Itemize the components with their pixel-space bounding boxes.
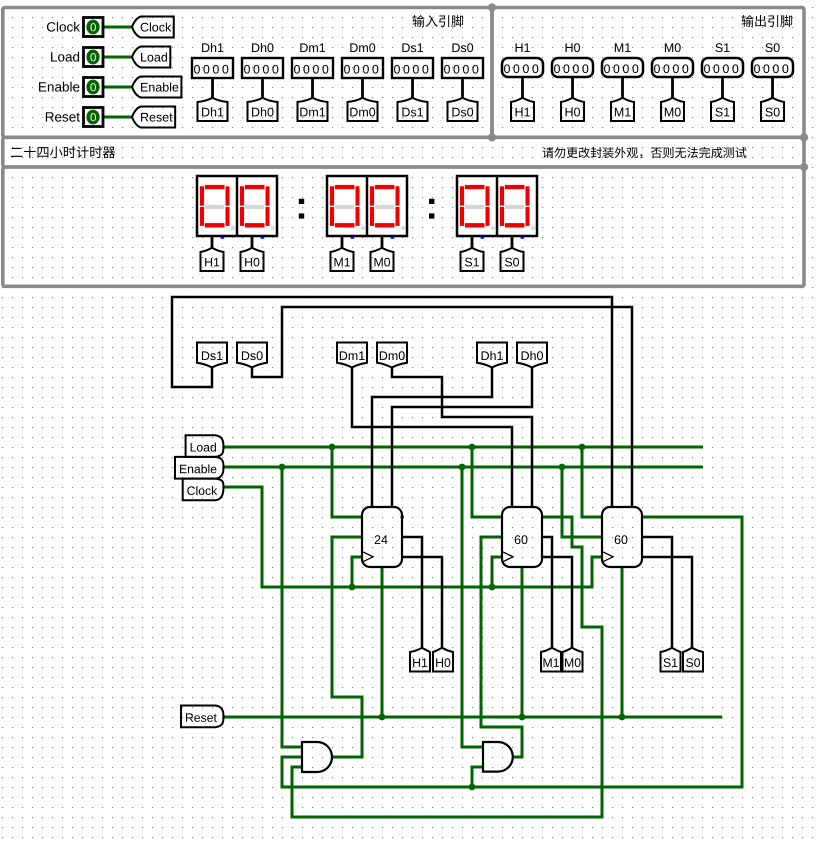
column label S0 [765, 43, 779, 52]
bus Dh0 to counter24 [392, 368, 532, 507]
tunnel M1 (north) [611, 98, 634, 121]
wire digit4 to tunnel [471, 237, 474, 248]
wire H1 pin to tunnel [521, 77, 524, 98]
tunnel Enable (west) [132, 77, 181, 98]
wire digit3 to tunnel [381, 237, 384, 248]
label Reset [46, 112, 80, 121]
tunnel Clock (east) [183, 479, 224, 501]
tunnel H1 (north) [511, 98, 534, 121]
column label M0 [665, 43, 681, 52]
tunnel S0 (circuit, north) [683, 648, 703, 672]
wire Load to counter60m Ld [472, 447, 502, 517]
wire Enable to AND1 input A [282, 467, 302, 747]
wire digit0 to tunnel [211, 237, 214, 248]
7-segment display digit 4 [465, 185, 485, 189]
tunnel Enable (east) [175, 457, 224, 479]
bus Dh1 to counter24 [372, 368, 492, 507]
tunnel Dh1 (south) [477, 343, 507, 368]
output panel border [492, 8, 804, 138]
tunnel H1 (circuit, north) [410, 648, 430, 672]
tunnel S1 (north) [711, 98, 734, 121]
7-segment display pair 0 background [197, 176, 277, 236]
tunnel Dh0 (north) [248, 98, 278, 121]
bus Dm0 to counter60m [392, 368, 532, 507]
wire Reset pin to tunnel [104, 116, 133, 119]
wire counter60s clear to Reset [621, 567, 624, 717]
tunnel S1 (display, north) [461, 248, 484, 271]
wire S1 pin to tunnel [721, 77, 724, 98]
column label H1 [516, 43, 530, 52]
column label M1 [615, 43, 631, 52]
tunnel Dm1 (north) [298, 98, 328, 121]
output pin H1 (4-bit) [502, 58, 543, 77]
tunnel Ds0 (north) [448, 98, 478, 121]
warning text [543, 147, 747, 159]
input pin Ds0 (4-bit) [442, 58, 483, 78]
tunnel M0 (circuit, north) [563, 648, 583, 672]
junction Load/24 [329, 444, 336, 451]
bus Ds0 to counter60s [252, 307, 632, 507]
junction Enable/AND2 [459, 464, 466, 471]
tunnel Reset (west) [132, 107, 175, 128]
wire Clock pin to tunnel [104, 26, 133, 29]
column label Dh1 [202, 43, 223, 52]
tunnel H1 (display, north) [201, 248, 224, 271]
colon 2 [429, 199, 434, 204]
tunnel Load (east) [186, 435, 224, 457]
column label Dm1 [300, 43, 325, 52]
wire Clock to counter60m clk [492, 557, 502, 587]
counter U2 counter-60 (minutes) [502, 507, 542, 567]
7-segment display pair 1 background [327, 176, 407, 236]
AND gate G1 (enables hours counter) [302, 742, 332, 772]
7-segment display digit 2 [335, 185, 355, 189]
bus Ds1 to counter60s [172, 297, 612, 507]
wire Enable to counter60s En [562, 467, 602, 537]
input pin Dh0 (4-bit) [242, 58, 283, 78]
bus counter60m Q0 to M0 [542, 557, 572, 648]
wire Reset distribution line [224, 716, 722, 719]
counter U1 counter-24 (hours) [362, 507, 402, 567]
wire Dh1 pin to tunnel [211, 78, 214, 98]
junction Load/60s [579, 444, 586, 451]
tunnel Dm0 (south) [377, 343, 407, 368]
tunnel M1 (display, north) [331, 248, 354, 271]
tunnel Reset (east) [181, 706, 224, 728]
input panel border [3, 8, 492, 138]
colon 1 [299, 199, 304, 204]
wire Clock to counter24 clk [352, 557, 362, 587]
label Clock [47, 22, 80, 32]
wire Enable to AND2 input A [462, 467, 483, 747]
tunnel H0 (circuit, north) [433, 648, 453, 672]
7-segment display digit 5 [505, 185, 525, 189]
tunnel H0 (north) [561, 98, 584, 121]
input pin Dh1 (4-bit) [192, 58, 233, 78]
output pin S0 (4-bit) [752, 58, 793, 77]
input pin Dm1 (4-bit) [292, 58, 333, 78]
wire counter60s carry branch to AND2 input C [472, 767, 483, 787]
tunnel S0 (north) [761, 98, 784, 121]
display panel border [3, 167, 804, 286]
wire H0 pin to tunnel [571, 77, 574, 98]
junction Load/60m [469, 444, 476, 451]
header 输出引脚 [742, 15, 793, 27]
tunnel S1 (circuit, north) [661, 648, 681, 672]
label Load [51, 52, 79, 62]
junction Enable/60s [559, 464, 566, 471]
wire Load to counter60s Ld [582, 447, 602, 517]
wire digit1 to tunnel [251, 237, 254, 248]
wire counter60s carry to AND1 input B [282, 517, 742, 787]
tunnel Ds1 (north) [398, 98, 428, 121]
junction Reset/60m [519, 714, 526, 721]
input pin Clock [84, 18, 104, 37]
bus counter60s Q0 to S0 [642, 557, 692, 648]
tunnel Load (west) [132, 47, 170, 68]
input pin Enable [84, 78, 104, 97]
wire Dh0 pin to tunnel [261, 78, 264, 98]
wire Load pin to tunnel [104, 56, 133, 59]
bus counter60m Q1 to M1 [542, 537, 552, 648]
bus Dm1 to counter60m [352, 368, 512, 507]
wire digit2 to tunnel [341, 237, 344, 248]
wire Clock distribution line [224, 487, 602, 587]
wire counter60m carry to AND1 input C [292, 517, 602, 817]
label Enable [39, 82, 79, 92]
column label H0 [566, 43, 580, 52]
tunnel Ds1 (south) [197, 343, 227, 368]
tunnel Dm0 (north) [348, 98, 378, 121]
wire Load distribution line [224, 446, 703, 449]
7-segment display digit 1 [245, 185, 265, 189]
bus counter24 Q0 to H0 [402, 557, 442, 648]
tunnel Dh1 (north) [198, 98, 228, 121]
wire counter24 clear to Reset [381, 567, 384, 717]
counter24 carry stub [401, 516, 405, 519]
input pin Reset [84, 108, 104, 127]
junction Clock/60m [489, 584, 496, 591]
column label Ds1 [402, 43, 423, 52]
tunnel M0 (display, north) [371, 248, 394, 271]
tunnel Dh0 (south) [517, 343, 547, 368]
wire counter60m clear to Reset [521, 567, 524, 717]
wire Enable distribution line [224, 466, 703, 469]
wire Dm0 pin to tunnel [361, 78, 364, 98]
output pin S1 (4-bit) [702, 58, 743, 77]
column label S1 [715, 43, 729, 52]
wire AND1 output to counter24 En [332, 537, 362, 757]
column label Dm0 [350, 43, 375, 52]
input pin Load [84, 48, 104, 67]
tunnel S0 (display, north) [501, 248, 524, 271]
output pin M0 (4-bit) [652, 58, 693, 77]
wire S0 pin to tunnel [771, 77, 774, 98]
wire AND2 output to counter60m En [481, 537, 522, 757]
junction Reset/24 [379, 714, 386, 721]
tunnel Dm1 (south) [337, 343, 367, 368]
7-segment display digit 3 [375, 185, 395, 189]
header 输入引脚 [413, 15, 464, 27]
tunnel H0 (display, north) [241, 248, 264, 271]
wire Dm1 pin to tunnel [311, 78, 314, 98]
bus counter24 Q1 to H1 [402, 537, 422, 648]
tunnel M0 (north) [661, 98, 684, 121]
bus counter60s Q1 to S1 [642, 537, 672, 648]
tunnel Clock (west) [132, 17, 174, 38]
wire Load to counter24 Ld [332, 447, 362, 517]
junction Reset/60s [619, 714, 626, 721]
output pin H0 (4-bit) [552, 58, 593, 77]
AND gate G2 (enables minutes counter) [483, 742, 513, 772]
7-segment display pair 2 background [457, 176, 537, 236]
tunnel M1 (circuit, north) [541, 648, 561, 672]
wire M1 pin to tunnel [621, 77, 624, 98]
wire Ds0 pin to tunnel [461, 78, 464, 98]
wire Ds1 pin to tunnel [411, 78, 414, 98]
junction Enable/AND1 [279, 464, 286, 471]
title bar border [3, 137, 804, 167]
column label Ds0 [452, 43, 473, 52]
counter U3 counter-60 (seconds) [602, 507, 642, 567]
junction Clock/24 [349, 584, 356, 591]
junction carry60s/AND2 [469, 784, 476, 791]
input pin Ds1 (4-bit) [392, 58, 433, 78]
7-segment display digit 0 [205, 185, 225, 189]
wire digit5 to tunnel [511, 237, 514, 248]
wire M0 pin to tunnel [671, 77, 674, 98]
input pin Dm0 (4-bit) [342, 58, 383, 78]
wire Enable pin to tunnel [104, 86, 133, 89]
tunnel Ds0 (south) [237, 343, 267, 368]
title 二十四小时计时器 [11, 146, 115, 158]
column label Dh0 [252, 43, 273, 52]
output pin M1 (4-bit) [602, 58, 643, 77]
